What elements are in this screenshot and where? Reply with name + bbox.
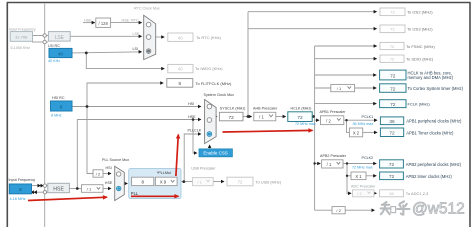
svg-text:8: 8: [179, 81, 182, 86]
svg-text:PCLK2: PCLK2: [362, 156, 374, 160]
svg-text:40: 40: [178, 35, 183, 40]
wire to AHB bus box: [315, 74, 377, 76]
AHB bus box: [380, 70, 406, 80]
HCLK box: [288, 112, 312, 122]
LSI RC box: [49, 48, 72, 57]
svg-text:72: 72: [389, 131, 395, 137]
svg-text:APB1 peripheral clocks (MHz): APB1 peripheral clocks (MHz): [406, 119, 462, 124]
svg-text:72: 72: [297, 115, 303, 121]
I2S3 box: [380, 25, 405, 33]
wire PLL out to junction and USB: [181, 181, 193, 183]
HSE box: [48, 183, 70, 192]
node APB2 branch junction: [346, 162, 348, 164]
svg-text:HSE: HSE: [53, 187, 64, 193]
red arrow PLL out: [131, 195, 179, 197]
svg-text:72: 72: [389, 162, 395, 168]
node HSI junction: [86, 105, 89, 108]
cortex /1 dropdown: [331, 84, 355, 91]
node HSE-CSS junction: [192, 118, 195, 121]
wire cortex prescaler to box: [355, 87, 377, 89]
X1 box: [351, 172, 366, 180]
svg-text:X 2: X 2: [353, 131, 360, 136]
wire to cortex prescaler: [315, 87, 331, 89]
svg-text:/ 1: / 1: [197, 180, 202, 185]
svg-text:PLL Source Mux: PLL Source Mux: [102, 158, 129, 162]
svg-text:HSI RC: HSI RC: [52, 96, 65, 100]
FLITF box: [167, 79, 193, 88]
wire APB2 branch vertical: [347, 164, 351, 194]
canvas boundary line: [44, 3, 46, 227]
wire to SDIO: [315, 58, 377, 60]
SYSCLK box: [219, 112, 243, 121]
HSI /2 box: [93, 170, 103, 177]
svg-text:72: 72: [390, 57, 395, 62]
svg-text:To I2S2 (MHz): To I2S2 (MHz): [407, 10, 433, 15]
wire HSI up to FLITF: [87, 83, 163, 107]
svg-text:HCLK (MHz): HCLK (MHz): [291, 107, 312, 111]
svg-text:PLL: PLL: [131, 191, 139, 196]
wire HSE to CSS: [193, 120, 197, 154]
wire HCLK out: [312, 116, 314, 118]
node PLL out junction: [182, 180, 185, 183]
svg-text:/ 2: / 2: [336, 208, 341, 213]
svg-text:AHB Prescaler: AHB Prescaler: [253, 107, 278, 111]
wire AHB to HCLK: [276, 116, 286, 118]
svg-text:72: 72: [389, 174, 395, 180]
wire /2 to PLL mux: [103, 173, 111, 175]
svg-text:/ 1: / 1: [259, 115, 264, 120]
/128 box: [96, 18, 111, 27]
svg-text:PLLCLK: PLLCLK: [188, 128, 202, 132]
cortex timer box: [380, 84, 406, 93]
svg-text:Input Frequency: Input Frequency: [9, 27, 36, 31]
svg-text:8: 8: [60, 104, 63, 109]
APB2 timer box: [380, 172, 404, 180]
APB2 /1 dropdown: [322, 160, 343, 168]
svg-text:/ 2: / 2: [326, 118, 331, 123]
watermark zhihu glyphs: [381, 201, 410, 214]
bottom /2 box: [332, 207, 345, 214]
svg-text:72: 72: [238, 180, 243, 185]
svg-text:To I2S3 (MHz): To I2S3 (MHz): [407, 27, 433, 32]
svg-text:72: 72: [390, 10, 395, 15]
wire LSE to RTC mux: [70, 35, 141, 37]
wire system mux out: [215, 116, 218, 118]
svg-text:LSI: LSI: [133, 47, 139, 51]
svg-text:4-16 MHz: 4-16 MHz: [10, 197, 26, 201]
svg-text:HSE: HSE: [188, 115, 196, 119]
svg-text:To FSMC (MHz): To FSMC (MHz): [406, 44, 435, 49]
wire to APB1 prescaler: [315, 119, 319, 121]
node X1 branch junction: [346, 175, 348, 177]
svg-text:HSE: HSE: [84, 18, 92, 22]
svg-text:HSI: HSI: [106, 166, 112, 170]
PLL source mux: [115, 166, 125, 200]
SDIO box: [380, 55, 404, 62]
wire to I2S3: [248, 28, 377, 30]
AHB /1 dropdown: [254, 112, 276, 121]
svg-text:36: 36: [389, 119, 395, 125]
wire to FSMC: [315, 45, 377, 47]
svg-text:Input Frequency: Input Frequency: [9, 178, 36, 182]
svg-text:72: 72: [390, 86, 396, 92]
wire to FCLK: [315, 103, 377, 105]
svg-text:HSI: HSI: [188, 102, 194, 106]
wire to bottom /2: [315, 209, 332, 211]
HSE /1 dropdown: [82, 185, 104, 193]
FSMC box: [380, 42, 404, 49]
svg-text:72: 72: [390, 27, 395, 32]
svg-text:72 MHz max: 72 MHz max: [295, 122, 316, 126]
svg-text:memory and DMA (MHz): memory and DMA (MHz): [408, 75, 454, 80]
svg-text:APB2 Prescaler: APB2 Prescaler: [320, 154, 347, 158]
wire HSE to /128: [83, 22, 95, 24]
svg-text:RTC Clock Mux: RTC Clock Mux: [134, 7, 160, 11]
wire HSE box to /1: [69, 188, 81, 190]
ADC out box: [380, 190, 404, 197]
node HCLK junction: [312, 115, 315, 118]
wire HSI to system mux: [72, 106, 201, 108]
wire branch to X1: [347, 175, 351, 177]
svg-text:72: 72: [390, 44, 395, 49]
svg-text:To Cortex System timer (MHz): To Cortex System timer (MHz): [408, 86, 464, 91]
wire USB prescaler to USB box: [213, 181, 224, 183]
svg-text:/ 1: / 1: [87, 187, 92, 192]
svg-text:72: 72: [229, 115, 235, 121]
svg-text:/ 2: / 2: [357, 191, 362, 196]
port circles: [43, 34, 47, 194]
svg-text:72: 72: [390, 73, 396, 79]
svg-text:LSE: LSE: [55, 35, 65, 41]
svg-text:To ADC1,2,3: To ADC1,2,3: [406, 191, 429, 196]
wire APB1 branch to X2: [347, 120, 350, 132]
svg-text:To FLITFCLK (MHz): To FLITFCLK (MHz): [196, 81, 232, 86]
wire /2 to watermark: [345, 209, 374, 211]
wire APB1 prescaler to PCLK1: [344, 119, 377, 121]
USB /1 dropdown: [193, 178, 214, 186]
wire SYSCLK to AHB prescaler: [243, 116, 252, 118]
input frequency 32.768 box: [10, 32, 32, 42]
wire /128 to RTC mux: [111, 22, 142, 24]
FCLK box: [380, 100, 406, 108]
wire CSS to mux bottom: [209, 145, 211, 151]
wire LSE ports: [32, 35, 43, 37]
svg-text:HSE_RTC: HSE_RTC: [122, 18, 139, 22]
PCLK2 box: [380, 160, 404, 168]
wire HSE ports: [32, 185, 44, 187]
red arrow HSE to PLL mux: [28, 197, 107, 200]
Enable CSS button: [199, 149, 232, 157]
svg-text:5-1000 KHz: 5-1000 KHz: [11, 46, 31, 50]
USB out box: [227, 177, 253, 186]
svg-text:X 1: X 1: [355, 174, 362, 179]
wire X2 to APB1 timer box: [363, 131, 377, 133]
svg-text:/ 128: / 128: [99, 21, 109, 26]
wire to I2S2: [248, 11, 377, 13]
PLL block: [129, 168, 181, 198]
svg-text:To SDIO (MHz): To SDIO (MHz): [406, 57, 434, 62]
svg-text:To IWDG (KHz): To IWDG (KHz): [195, 66, 223, 71]
node SYSCLK junction: [247, 115, 250, 118]
svg-text:FCLK (MHz): FCLK (MHz): [408, 102, 431, 107]
RTC clock mux: [144, 15, 156, 59]
X2 box: [349, 128, 362, 137]
node HSE junction: [76, 187, 79, 190]
RTC out box: [168, 33, 193, 41]
node LSI/IWDG junction: [85, 52, 88, 55]
node APB1 branch junction: [345, 119, 347, 121]
APB1 timer box: [380, 128, 403, 137]
wire X1 to APB2 timer box: [366, 175, 376, 177]
svg-text:APB1 Prescaler: APB1 Prescaler: [320, 110, 347, 114]
svg-text:72 MHz max: 72 MHz max: [352, 165, 373, 169]
svg-text:40 KHz: 40 KHz: [48, 59, 60, 63]
wire ADC prescaler to ADC box: [374, 192, 376, 194]
svg-text:To USB (MHz): To USB (MHz): [256, 180, 282, 185]
svg-text:USB Prescaler: USB Prescaler: [191, 167, 216, 171]
svg-text:32.768: 32.768: [15, 35, 28, 40]
svg-text:LSI RC: LSI RC: [48, 44, 60, 48]
svg-text:APB2 timer clocks (MHz): APB2 timer clocks (MHz): [406, 174, 453, 179]
svg-text:SYSCLK (MHz): SYSCLK (MHz): [220, 107, 246, 111]
wire LSI to RTC mux: [72, 52, 142, 53]
wire RTC mux out: [156, 36, 165, 38]
ADC /2 dropdown: [353, 190, 375, 197]
wire HSE vertical: [76, 120, 78, 189]
svg-text:HSE: HSE: [105, 181, 113, 185]
APB1 /2 dropdown: [321, 116, 344, 125]
svg-text:/ 1: / 1: [327, 162, 332, 167]
svg-text:LSE: LSE: [133, 32, 141, 36]
system clock mux: [205, 100, 217, 144]
svg-text:X 9: X 9: [160, 180, 167, 185]
wire HCLK bus vertical: [314, 46, 316, 210]
wire /1 to PLL mux: [103, 188, 111, 190]
HSE input double arrows: [31, 184, 44, 194]
svg-text:40: 40: [178, 67, 183, 72]
svg-text:PCLK1: PCLK1: [362, 115, 374, 119]
svg-text:72: 72: [390, 102, 396, 108]
wire LSI down to IWDG: [86, 53, 164, 69]
svg-text:Enable CSS: Enable CSS: [203, 151, 228, 156]
wire to APB2 prescaler: [315, 163, 321, 165]
PLLMul dropdown: [155, 177, 177, 185]
svg-text:8: 8: [19, 187, 22, 192]
node APB2 bus junction: [313, 162, 315, 164]
wire PLL mux out: [124, 183, 127, 185]
svg-text:APB1 Timer clocks (MHz): APB1 Timer clocks (MHz): [406, 131, 454, 136]
svg-text:40: 40: [58, 51, 63, 56]
IWDG out box: [168, 64, 193, 72]
svg-text:36: 36: [389, 191, 394, 196]
wire PLLCLK up to system mux: [184, 134, 201, 182]
red arrow PLLCLK up: [176, 135, 178, 177]
HSI RC box: [51, 101, 73, 111]
PLL input box: [132, 177, 154, 185]
wire HSE to system mux: [77, 119, 201, 121]
wire HSI down to /2: [87, 107, 93, 174]
svg-text:/ 2: / 2: [96, 171, 101, 176]
svg-text:To RTC (KHz): To RTC (KHz): [196, 35, 221, 40]
svg-text:APB2 peripheral clocks (MHz): APB2 peripheral clocks (MHz): [406, 162, 462, 167]
svg-text:/ 1: / 1: [337, 86, 342, 91]
svg-text:36 MHz max: 36 MHz max: [353, 122, 374, 126]
wire SYSCLK up to I2S: [247, 12, 249, 117]
PCLK1 box: [380, 117, 403, 125]
svg-text:@w512: @w512: [412, 201, 465, 218]
svg-text:*PLLMul: *PLLMul: [157, 171, 172, 175]
I2S2 box: [380, 8, 405, 16]
input frequency 8 box: [9, 184, 31, 194]
red arrow SYSCLK to HCLK: [223, 130, 313, 132]
svg-text:ADC Prescaler: ADC Prescaler: [351, 185, 376, 189]
svg-text:8 MHz: 8 MHz: [51, 114, 62, 118]
LSE box: [48, 32, 70, 41]
wire APB2 prescaler to PCLK2: [343, 163, 376, 165]
svg-text:System Clock Mux: System Clock Mux: [204, 93, 235, 97]
